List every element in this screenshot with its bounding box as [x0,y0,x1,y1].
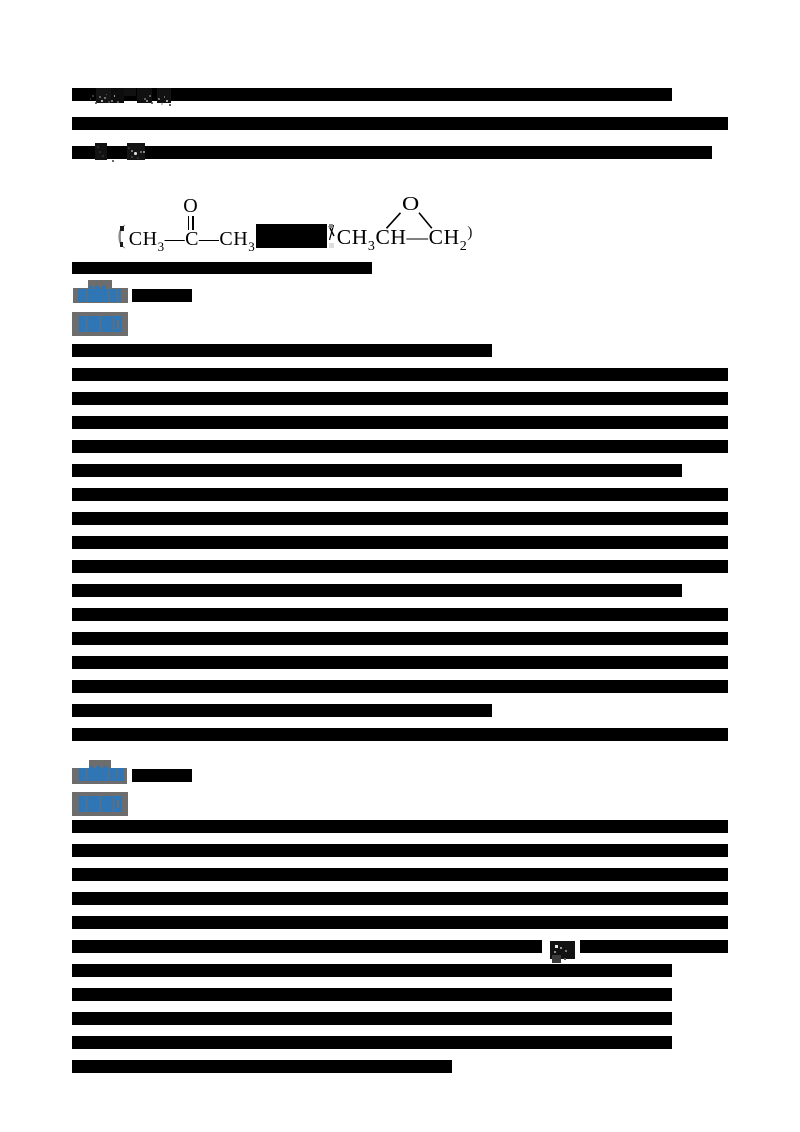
black redacted rect [256,224,329,248]
row1 faint block d [137,88,152,103]
white bridge strip between formula images [256,199,328,256]
label 4 box [72,792,128,816]
acetone O [183,196,197,216]
epoxide O [402,195,419,215]
label 1 bump [88,280,112,288]
label 3 box [72,768,128,784]
row2 speckle dots [97,146,99,148]
row1 faint block e [157,88,171,103]
invisible black text lines (original page text) [72,88,672,101]
label 2 blue text [79,316,123,333]
left paren dark tips [120,226,124,231]
small glyph marks right of black rect [328,224,336,244]
label 3 blue text [79,768,124,781]
label 1 blue text [78,289,121,303]
label 3 bump [89,760,112,767]
row2 faint block b [127,143,145,160]
question text line 1 (invisible black text) [72,86,732,106]
acetone double bond line 1 [188,216,190,230]
label 4 blue text [79,796,122,812]
row1 faint block b [111,88,124,103]
row2 faint block a [95,143,107,160]
row1 speckle dots [99,96,101,98]
epoxide CH3CH-CH2 [337,227,468,249]
row1 faint block c [124,88,136,96]
acetone double bond line 2 [192,216,194,230]
right paren fragment on image2 edge [467,225,472,241]
gray notch top-right of black rect [329,224,334,227]
left paren fragment on image1 edge [117,222,126,248]
row1 faint block a [96,88,111,103]
label 1 box [73,288,129,304]
formula image 2: propylene oxide [327,184,472,256]
label 2 box [72,312,128,335]
epoxide ring bond lines [380,208,440,233]
light block bottom-right of black rect [329,243,334,249]
formula image 1: acetone [119,191,256,256]
small faint formula mark near (557,950) [550,941,575,959]
acetone CH3-C-CH3 [129,229,255,249]
